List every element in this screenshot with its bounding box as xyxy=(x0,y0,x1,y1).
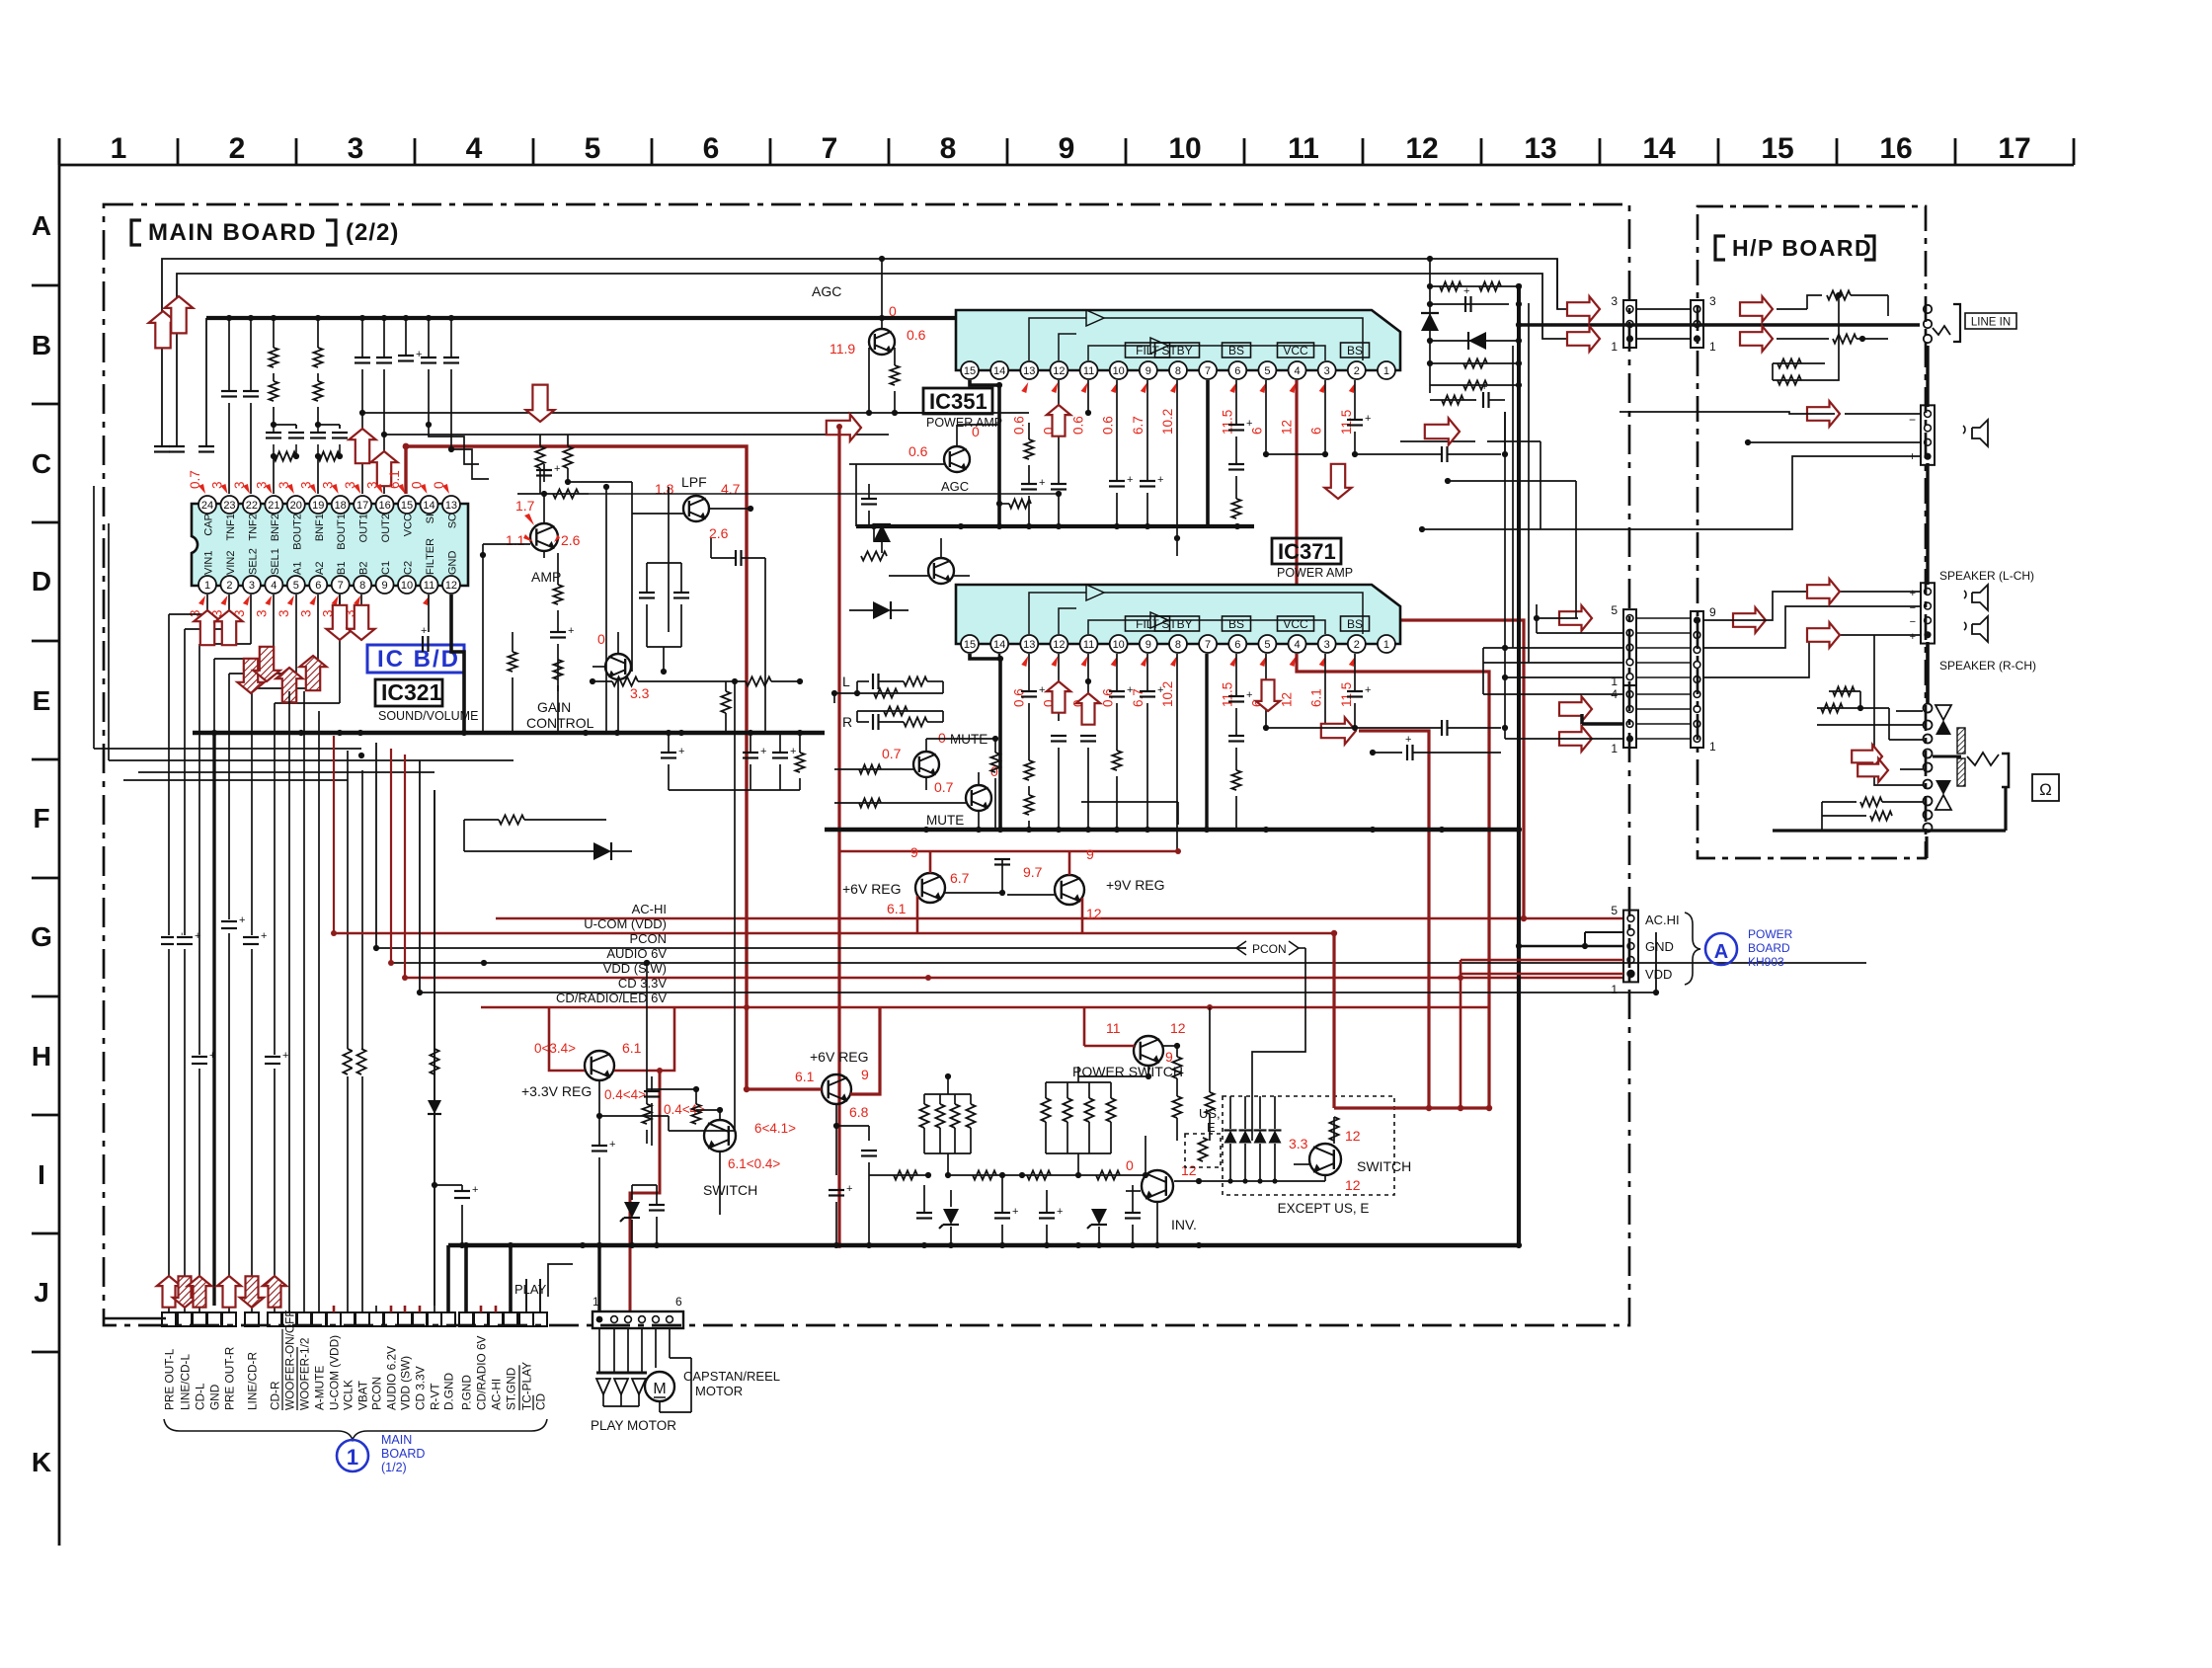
svg-text:11.9: 11.9 xyxy=(829,341,855,357)
svg-text:1: 1 xyxy=(1611,742,1618,755)
svg-text:MAIN BOARD: MAIN BOARD xyxy=(148,219,317,246)
svg-text:F: F xyxy=(33,803,49,834)
red VCC trace from IC321 pin15 xyxy=(406,446,747,1089)
wire BS caps to right xyxy=(1355,453,1442,455)
power connector wires xyxy=(1461,932,1623,974)
svg-text:11: 11 xyxy=(1083,365,1094,377)
headphone omega box xyxy=(2032,774,2059,801)
SWITCH H wiring xyxy=(668,1116,670,1131)
mid cluster vertical rails xyxy=(589,482,669,733)
svg-text:BOARD: BOARD xyxy=(1748,941,1790,955)
svg-text:2.6: 2.6 xyxy=(561,532,581,548)
svg-text:+: + xyxy=(1481,381,1487,393)
svg-text:+: + xyxy=(846,1183,852,1195)
G bus U-COM (red) xyxy=(334,932,1334,935)
svg-text:+: + xyxy=(609,1139,615,1151)
svg-text:WOOFER-1/2: WOOFER-1/2 xyxy=(298,1338,312,1410)
svg-text:8: 8 xyxy=(940,132,957,165)
FILTER pin ecap xyxy=(428,595,430,632)
arrow up IC351 pin12 xyxy=(1047,405,1070,437)
arrow up pin16 xyxy=(370,451,397,486)
svg-text:U-COM (VDD): U-COM (VDD) xyxy=(584,916,667,931)
ST.GND thick drop xyxy=(509,1245,513,1312)
svg-text:5: 5 xyxy=(1611,603,1618,617)
G bus AC-HI (red) xyxy=(496,917,1623,920)
svg-text:PCON: PCON xyxy=(370,1377,384,1410)
svg-text:9: 9 xyxy=(1709,605,1716,619)
svg-text:EXCEPT US, E: EXCEPT US, E xyxy=(1278,1201,1370,1216)
svg-text:VDD (S.W): VDD (S.W) xyxy=(603,961,667,976)
main bottom border wire segment xyxy=(166,1318,549,1320)
IC371 internal op-amp triangles and traces xyxy=(1029,585,1363,634)
svg-text:8: 8 xyxy=(359,580,365,592)
B-row supply bus (thick) xyxy=(206,315,956,321)
svg-text:LINE IN: LINE IN xyxy=(1971,317,2011,329)
POWER SWITCH transistor xyxy=(1134,1036,1163,1066)
res pair above switch xyxy=(646,1089,648,1104)
svg-text:IC351: IC351 xyxy=(929,389,987,414)
svg-text:SPEAKER (R-CH): SPEAKER (R-CH) xyxy=(1939,659,2036,673)
diode row in EXCEPT box xyxy=(1199,1096,1325,1184)
headphone plug body xyxy=(2002,754,2009,787)
svg-text:4: 4 xyxy=(1294,639,1300,651)
IC371 pin14 stub xyxy=(998,654,1001,659)
svg-text:12: 12 xyxy=(1053,365,1065,377)
IC321 label box xyxy=(375,679,442,706)
wire lpf-to-switch vertical xyxy=(734,681,736,1131)
svg-text:+: + xyxy=(472,1184,478,1196)
svg-text:+: + xyxy=(1405,734,1411,746)
svg-text:+9V REG: +9V REG xyxy=(1106,877,1165,893)
svg-text:1: 1 xyxy=(1611,983,1618,996)
zener x614 xyxy=(605,733,607,820)
MUTE transistor 2 xyxy=(966,785,991,811)
svg-text:VDD: VDD xyxy=(1645,967,1672,982)
svg-text:6.7: 6.7 xyxy=(1131,416,1145,435)
caps under IC371 xyxy=(1021,654,1269,849)
svg-text:+: + xyxy=(790,746,796,757)
res row between banks xyxy=(948,1174,1022,1176)
ruler column numbers 1-17 xyxy=(111,132,2031,165)
ecap far right xyxy=(1373,752,1402,754)
thick rail x1538 down xyxy=(1517,830,1521,1245)
C bus stub left xyxy=(855,464,857,526)
svg-text:9: 9 xyxy=(382,580,388,592)
res x1008 row F xyxy=(994,739,996,753)
arrow right at C row into amp xyxy=(827,414,861,440)
svg-text:24: 24 xyxy=(201,500,213,512)
cap C-left3 xyxy=(205,318,207,446)
svg-text:BOUT2: BOUT2 xyxy=(291,514,303,550)
svg-text:19: 19 xyxy=(312,500,324,512)
svg-text:+: + xyxy=(1246,418,1252,430)
red junction dots G lines xyxy=(1331,930,1337,936)
svg-text:Ω: Ω xyxy=(2039,780,2052,799)
svg-text:3: 3 xyxy=(1709,294,1716,308)
svg-text:6: 6 xyxy=(315,580,321,592)
svg-text:15: 15 xyxy=(964,639,976,651)
thick HP spine vertical xyxy=(1926,346,1929,407)
LINE IN jack contacts xyxy=(1924,304,1960,343)
Q-AMP wiring xyxy=(483,543,530,545)
MUTE transistor 1 xyxy=(913,752,939,777)
svg-text:0: 0 xyxy=(597,631,605,647)
svg-text:MAIN: MAIN xyxy=(381,1433,412,1447)
ecap IC351 pin2 xyxy=(1354,380,1356,420)
svg-text:11: 11 xyxy=(424,580,434,592)
svg-text:12: 12 xyxy=(445,580,457,592)
svg-text:C1: C1 xyxy=(380,561,392,575)
arrow right CN-C out xyxy=(1733,607,1766,633)
headphone jack contacts xyxy=(1924,704,1933,833)
IC351 pin voltage values red xyxy=(1011,382,1356,435)
ruler row ticks xyxy=(32,285,59,1352)
svg-text:+: + xyxy=(1127,474,1133,486)
wire reg H to resistor row xyxy=(869,1174,928,1176)
red VCC trace IC371 pin4 xyxy=(1297,654,1489,1108)
MAIN BOARD title xyxy=(131,220,141,245)
red arrow down IC371 pin5 xyxy=(1256,679,1280,711)
svg-text:M: M xyxy=(653,1381,666,1397)
svg-text:9: 9 xyxy=(1145,639,1151,651)
IC321 output nest wires to bottom connector xyxy=(169,595,340,1306)
svg-text:VCC: VCC xyxy=(1283,344,1308,357)
svg-text:10: 10 xyxy=(1113,639,1125,651)
headphone tip zigzag xyxy=(1967,753,1999,765)
svg-text:0.6: 0.6 xyxy=(1101,416,1116,435)
red rail junction row I xyxy=(1332,932,1335,1108)
svg-text:+: + xyxy=(1365,684,1371,696)
cap C-left1 xyxy=(161,435,163,446)
+3.3V wire right to switch xyxy=(599,1115,669,1117)
red rail x756 junction at G xyxy=(744,1004,750,1010)
svg-text:0.4<4>: 0.4<4> xyxy=(604,1087,646,1102)
svg-text:+: + xyxy=(416,349,422,360)
svg-text:VCC: VCC xyxy=(1283,617,1308,631)
caps under IC351 xyxy=(1021,380,1269,556)
svg-text:BS: BS xyxy=(1347,617,1363,631)
svg-text:+3.3V REG: +3.3V REG xyxy=(521,1083,592,1099)
F-row thick bus under IC371 xyxy=(825,827,1519,833)
svg-text:1: 1 xyxy=(1611,340,1618,354)
svg-text:16: 16 xyxy=(378,500,390,512)
svg-text:+: + xyxy=(678,746,684,757)
svg-text:C2: C2 xyxy=(403,561,415,575)
gain ctl emitter down xyxy=(617,679,619,733)
red wire pin3 to rail xyxy=(1359,731,1429,1108)
arrow right CN2 bottom xyxy=(1740,326,1773,352)
res h row F left xyxy=(499,815,524,824)
res right of power switch xyxy=(1176,1046,1178,1057)
svg-text:8: 8 xyxy=(1175,639,1181,651)
svg-text:0.6: 0.6 xyxy=(907,327,926,343)
transistor left of IC371 xyxy=(928,558,954,584)
svg-text:+: + xyxy=(239,914,245,926)
svg-text:2: 2 xyxy=(1354,365,1360,377)
svg-text:A-MUTE: A-MUTE xyxy=(313,1366,327,1410)
IC371 pin15 thick stub xyxy=(970,654,1000,830)
IC351 label box xyxy=(923,388,992,414)
svg-text:H: H xyxy=(32,1041,51,1072)
right side vertical feeders xyxy=(1471,303,1537,963)
arrow up IC371 pin11 xyxy=(1076,693,1100,725)
svg-text:FILTER: FILTER xyxy=(425,538,436,575)
power board blue circle A xyxy=(1705,933,1737,965)
svg-text:11: 11 xyxy=(1288,132,1319,165)
IC351 internal op-amp triangles and traces xyxy=(1029,310,1363,360)
svg-text:AUDIO 6.2V: AUDIO 6.2V xyxy=(385,1346,399,1410)
US,E dashed box xyxy=(1185,1134,1221,1167)
svg-text:18: 18 xyxy=(335,500,347,512)
svg-text:+: + xyxy=(1039,684,1045,696)
caps below E bus row F xyxy=(661,733,805,790)
svg-text:SI: SI xyxy=(425,514,436,523)
H/P BOARD title xyxy=(1715,236,1725,260)
red arrow down at IC351 pin4 xyxy=(1324,464,1351,499)
arrow right into CN1 bottom xyxy=(1567,326,1600,352)
red horizontal collector rail xyxy=(1334,1106,1491,1109)
wire AGC to pin13 bus xyxy=(895,412,1029,414)
svg-text:+: + xyxy=(1463,285,1469,297)
C-row thick bus under IC351 xyxy=(856,523,1254,529)
bundle inline electrolytic caps xyxy=(158,914,288,1069)
svg-text:0: 0 xyxy=(1126,1157,1134,1173)
svg-text:K: K xyxy=(32,1447,51,1477)
capstan wires xyxy=(655,1328,657,1368)
svg-text:GAIN: GAIN xyxy=(537,699,571,715)
TC-PLAY CD stubs xyxy=(525,1279,527,1312)
IC321 top pin voltage values (red) xyxy=(188,470,449,494)
svg-text:R-VT: R-VT xyxy=(429,1383,442,1410)
svg-text:BOUT1: BOUT1 xyxy=(336,514,348,550)
svg-text:LINE/CD-R: LINE/CD-R xyxy=(246,1352,260,1410)
svg-text:17: 17 xyxy=(356,500,368,512)
svg-text:3: 3 xyxy=(1324,639,1330,651)
red rail junction xyxy=(836,424,842,430)
svg-text:AUDIO 6V: AUDIO 6V xyxy=(606,946,667,961)
arrow down hatched sel1 xyxy=(253,647,279,681)
svg-text:FILT: FILT xyxy=(1136,344,1159,357)
svg-text:CD 3.3V: CD 3.3V xyxy=(414,1366,428,1410)
power connector brace xyxy=(1685,913,1700,985)
R-VT column components xyxy=(430,1049,438,1074)
arrow up hatched a2 xyxy=(299,656,326,690)
svg-text:R: R xyxy=(842,714,852,730)
svg-text:5: 5 xyxy=(293,580,299,592)
svg-text:VIN1: VIN1 xyxy=(203,551,215,575)
svg-text:4: 4 xyxy=(1294,365,1300,377)
connector CN-A 5pin xyxy=(1623,609,1636,685)
+6V REG G wiring xyxy=(929,851,932,873)
P.GND thick drop xyxy=(464,1245,468,1312)
arrow right to speaker L xyxy=(1807,579,1840,604)
svg-text:12: 12 xyxy=(1170,1020,1186,1036)
arrow up hatched a1 xyxy=(276,668,302,702)
svg-text:SC: SC xyxy=(446,514,458,528)
G bus VDD SW (red) xyxy=(405,977,1623,980)
wire above connectors xyxy=(1556,259,1558,309)
svg-text:4: 4 xyxy=(466,132,483,165)
svg-text:6.7: 6.7 xyxy=(950,870,970,886)
wire IC351 pin3 bs xyxy=(1324,380,1326,454)
svg-text:POWER AMP: POWER AMP xyxy=(926,416,1002,430)
extra right-side horizontals xyxy=(1400,412,1576,618)
svg-text:INV.: INV. xyxy=(1171,1217,1197,1232)
svg-text:12: 12 xyxy=(1053,639,1065,651)
CN1-CN2 cross wires xyxy=(1636,308,1691,310)
svg-text:+: + xyxy=(1910,631,1916,643)
hp spine upper segment xyxy=(1926,645,1929,703)
right of IC351 diode-resistor chain xyxy=(1421,256,1522,412)
cap above AMP xyxy=(543,464,545,482)
svg-text:0.6: 0.6 xyxy=(1071,416,1086,435)
red VCC trace IC351 pin4 xyxy=(1295,380,1298,584)
arrow right CN-A xyxy=(1559,605,1592,631)
svg-text:BS: BS xyxy=(1228,617,1244,631)
svg-text:KH903: KH903 xyxy=(1748,955,1784,969)
svg-text:+: + xyxy=(195,930,200,942)
svg-text:−: − xyxy=(1910,616,1916,628)
svg-text:B1: B1 xyxy=(336,562,348,575)
resistor col x519 xyxy=(512,632,513,652)
arrow up conn PRE OUT-R xyxy=(217,1276,241,1308)
IC371 FILT STBY BS VCC BS boxed labels xyxy=(1126,616,1370,631)
G bus CD 3.3V xyxy=(420,992,1656,993)
svg-text:CAP: CAP xyxy=(203,514,215,536)
AGC transistor Q351-1 xyxy=(869,329,895,355)
svg-text:3: 3 xyxy=(1611,294,1618,308)
resistor r col4b xyxy=(567,435,569,446)
svg-text:+: + xyxy=(421,625,427,637)
IC321 top pin circles 24-13 xyxy=(198,496,460,514)
resistor bank 1 (4x) xyxy=(919,1073,975,1178)
black rail from red end down xyxy=(1177,802,1179,825)
svg-text:14: 14 xyxy=(1642,132,1676,165)
svg-text:6<4.1>: 6<4.1> xyxy=(754,1121,796,1136)
svg-text:+: + xyxy=(1012,1206,1018,1218)
power board connector 5pin xyxy=(1623,911,1638,983)
arrow right CN2 top xyxy=(1740,296,1773,322)
CD 3.3V rail right hook xyxy=(1655,932,1657,993)
cap x660 H xyxy=(651,1076,653,1091)
svg-text:SWITCH: SWITCH xyxy=(1357,1158,1411,1174)
svg-text:+6V REG: +6V REG xyxy=(842,881,902,897)
svg-text:7: 7 xyxy=(1205,365,1211,377)
PLAY wire xyxy=(511,1297,513,1306)
red rail from AGC down xyxy=(837,427,840,1245)
speaker icon L xyxy=(1972,585,1988,610)
IC321 bottom pin names xyxy=(203,538,459,575)
resistor r col4 xyxy=(539,435,541,446)
ruler column ticks xyxy=(59,138,2074,165)
svg-text:20: 20 xyxy=(290,500,302,512)
res under bus x885 xyxy=(873,526,875,541)
mid cluster caps pair xyxy=(639,592,655,594)
zener+cap bottom of switch xyxy=(631,1185,633,1200)
svg-text:23: 23 xyxy=(223,500,235,512)
svg-text:CD 3.3V: CD 3.3V xyxy=(618,976,667,991)
svg-text:POWER AMP: POWER AMP xyxy=(1277,566,1353,580)
svg-text:8: 8 xyxy=(1175,365,1181,377)
svg-text:10: 10 xyxy=(1168,132,1201,165)
svg-text:(2/2): (2/2) xyxy=(346,219,399,246)
arrow right to speaker R xyxy=(1807,622,1840,648)
svg-text:2: 2 xyxy=(1354,639,1360,651)
svg-text:17: 17 xyxy=(1998,132,2030,165)
connector CN-hp-in 3pin xyxy=(1691,300,1703,348)
R input network xyxy=(842,706,943,730)
bottom connector feed wires xyxy=(169,790,540,1312)
svg-text:−: − xyxy=(1909,413,1916,427)
svg-text:SEL2: SEL2 xyxy=(247,548,259,575)
bottom connector pin labels (rotated) xyxy=(163,1310,548,1410)
AGC transistor Q351-2 xyxy=(944,446,970,472)
svg-text:AC.HI: AC.HI xyxy=(1645,913,1680,927)
svg-text:SPEAKER (L-CH): SPEAKER (L-CH) xyxy=(1939,569,2034,583)
decoupling network under B bus xyxy=(221,318,459,494)
wire IC351 pin12 gain line xyxy=(1056,491,1062,497)
svg-text:OUT1: OUT1 xyxy=(358,514,370,542)
svg-text:5: 5 xyxy=(1611,904,1618,917)
svg-text:12: 12 xyxy=(1280,420,1295,435)
svg-text:10.2: 10.2 xyxy=(1160,409,1175,435)
IC351 pin15 thick stub xyxy=(970,380,999,526)
svg-text:0<3.4>: 0<3.4> xyxy=(534,1041,576,1056)
left border stub wires xyxy=(104,1317,166,1320)
svg-text:1: 1 xyxy=(1383,639,1389,651)
svg-text:1: 1 xyxy=(1611,675,1618,688)
IC321 bottom pin circles 1-12 xyxy=(198,576,460,594)
cap right of +6V REG xyxy=(1001,859,1003,893)
svg-text:BNF1: BNF1 xyxy=(314,514,326,541)
US,E resistor xyxy=(1198,1138,1207,1161)
svg-text:AC-HI: AC-HI xyxy=(632,902,667,916)
svg-text:7: 7 xyxy=(338,580,344,592)
svg-text:16: 16 xyxy=(1879,132,1912,165)
svg-text:+: + xyxy=(1157,684,1163,696)
down arrow col4 C-row xyxy=(526,385,555,422)
diode left of IC371 xyxy=(873,601,891,619)
svg-text:9: 9 xyxy=(910,844,918,860)
ecap IC371 pin2 xyxy=(1354,654,1356,691)
svg-text:11.5: 11.5 xyxy=(1220,682,1234,707)
svg-text:PRE OUT-L: PRE OUT-L xyxy=(163,1348,177,1410)
svg-text:CD/RADIO 6V: CD/RADIO 6V xyxy=(475,1335,489,1410)
svg-text:+: + xyxy=(1157,474,1163,486)
svg-text:+: + xyxy=(1039,477,1045,489)
wire pin14 loop right xyxy=(429,425,479,464)
svg-text:3: 3 xyxy=(249,580,255,592)
svg-text:MOTOR: MOTOR xyxy=(695,1384,743,1398)
ruler row letters A-K xyxy=(31,210,52,1477)
svg-text:PCON: PCON xyxy=(1252,942,1287,956)
wire IC371 pin3 xyxy=(1324,654,1326,731)
LPF transistor xyxy=(683,496,709,521)
svg-text:ST.GND: ST.GND xyxy=(505,1368,518,1410)
svg-text:0.7: 0.7 xyxy=(934,779,954,795)
SWITCH except wiring xyxy=(1294,1163,1309,1165)
svg-text:2: 2 xyxy=(226,580,232,592)
transistor Q-AMP xyxy=(530,523,558,551)
svg-text:9: 9 xyxy=(861,1067,869,1082)
transistor +3.3V REG xyxy=(585,1051,614,1080)
svg-text:1: 1 xyxy=(111,132,127,165)
arrow right CN-B low xyxy=(1559,726,1592,752)
IC371 power amp body xyxy=(956,585,1400,644)
wire col4b across xyxy=(568,481,632,483)
bottom thick ground bus xyxy=(448,1242,1519,1248)
svg-text:13: 13 xyxy=(1023,365,1035,377)
